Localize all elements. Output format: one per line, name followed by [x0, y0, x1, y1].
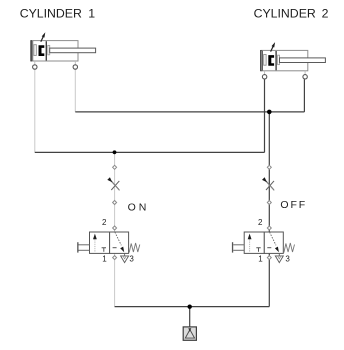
- wire: cylinder C2 port B down to upper manifold: [303, 79, 305, 112]
- svg-text:2: 2: [258, 218, 263, 227]
- cylinder C1 body: [31, 41, 78, 61]
- valve V1 right box: [110, 232, 129, 253]
- cylinder C1 port B: [73, 61, 77, 69]
- cylinder C2 body: [261, 50, 308, 70]
- valve V1 blocked port right box: [113, 247, 117, 249]
- throttle FC1 lower port: [113, 201, 117, 205]
- cylinder C2 position arrow: [271, 42, 276, 52]
- valve V2 left box: [244, 232, 264, 253]
- svg-text:ON: ON: [128, 201, 150, 213]
- valve V1 return spring: [129, 243, 140, 253]
- pressure source PS1: [183, 327, 196, 340]
- valve V1 pushbutton actuator: [77, 242, 89, 252]
- wire: supply drop to source: [189, 307, 191, 330]
- cylinder C2 port A: [262, 71, 266, 79]
- wire: bottom supply line: [115, 306, 270, 308]
- cylinder C1 port A: [33, 61, 37, 69]
- svg-text:1: 1: [88, 6, 95, 20]
- valve V2 flow arrow left box: [248, 234, 252, 252]
- cylinder C2: [260, 42, 325, 79]
- svg-text:1: 1: [258, 255, 263, 264]
- throttle FC1 restrictor X: [111, 181, 119, 190]
- valve V2 port 3 exhaust: [275, 253, 283, 262]
- valve V1 left box: [90, 232, 110, 253]
- valve V2 blocked port right box: [267, 247, 271, 249]
- wire: cylinder C1 port A down to lower manifold: [34, 69, 36, 152]
- throttle FC1 adjustment arrow: [107, 177, 119, 190]
- svg-text:OFF: OFF: [280, 199, 307, 211]
- throttle FC2 adjustment arrow: [262, 177, 274, 190]
- valve V2 exhaust path right box: [270, 232, 279, 252]
- valve V2 (OFF pushbutton 3/2): [232, 218, 295, 263]
- throttle valve FC1 (ON branch): [107, 165, 119, 204]
- valve V2 return spring: [284, 243, 295, 253]
- cylinder C1 piston plate: [45, 41, 47, 60]
- cylinder C2 piston rod: [280, 58, 326, 63]
- cylinder C1 left end cap: [30, 40, 31, 61]
- svg-text:2: 2: [102, 218, 107, 227]
- cylinder C1 piston rod: [50, 48, 96, 53]
- wire: valve V2 port 1 down to supply line: [268, 254, 270, 307]
- valve V2 port 1: [267, 256, 271, 260]
- svg-text:CYLINDER: CYLINDER: [254, 6, 316, 20]
- svg-text:3: 3: [285, 255, 290, 264]
- svg-text:2: 2: [322, 6, 329, 20]
- cylinder C1 cushion sleeve: [34, 45, 36, 56]
- valve V2 pushbutton actuator: [232, 242, 244, 252]
- wire: OFF branch vertical (junction to valve V2 port 2): [268, 112, 270, 232]
- cylinder C2 cushion sleeve: [264, 55, 266, 66]
- valve V1 exhaust path right box: [115, 232, 124, 252]
- valve V1 (ON pushbutton 3/2): [77, 218, 140, 263]
- throttle FC2 restrictor X: [266, 181, 274, 190]
- valve V2 right box: [264, 232, 283, 253]
- cylinder C1 rear wall: [32, 41, 34, 61]
- cylinder C2 port B: [303, 71, 307, 79]
- cylinder C2 rod bearing: [278, 55, 280, 64]
- node: junction upper manifold / OFF branch: [267, 110, 272, 115]
- cylinder C2 piston magnet: [268, 55, 274, 66]
- wire: upper manifold horizontal (rod-side line): [75, 111, 304, 113]
- wire: cylinder C1 port B down to upper manifold: [74, 69, 76, 112]
- cylinder C1 rod bearing: [48, 45, 50, 54]
- valve V1 port 3 exhaust: [121, 253, 129, 262]
- throttle FC2 lower port: [267, 201, 271, 205]
- cylinder C2 left end cap: [260, 50, 261, 71]
- throttle FC2 upper port: [267, 165, 271, 169]
- valve V2 port 2: [267, 226, 271, 230]
- cylinder C2 piston plate: [275, 51, 277, 70]
- node: junction lower manifold / ON branch: [113, 150, 117, 154]
- svg-text:1: 1: [102, 255, 107, 264]
- wire: ON branch vertical (junction to valve V1 port 2): [114, 152, 116, 232]
- throttle valve FC2 (OFF branch): [262, 165, 274, 204]
- svg-text:3: 3: [129, 255, 134, 264]
- cylinder C2 rear wall: [262, 51, 264, 71]
- cylinder C1: [30, 32, 95, 69]
- wire: valve V1 port 1 down to supply line: [114, 254, 116, 307]
- wire: lower manifold horizontal (cap-side line): [35, 151, 265, 153]
- node: junction supply line / source: [188, 305, 192, 309]
- svg-text:CYLINDER: CYLINDER: [20, 6, 82, 20]
- cylinder C1 position arrow: [41, 32, 46, 42]
- throttle FC1 upper port: [113, 165, 117, 169]
- wire: cylinder C2 port A down to lower manifold: [264, 79, 266, 152]
- valve V1 port 2: [113, 226, 117, 230]
- valve V1 port 1: [113, 256, 117, 260]
- valve V1 blocked port left box: [102, 248, 106, 252]
- valve V1 flow arrow left box: [93, 234, 97, 252]
- valve V2 blocked port left box: [256, 248, 260, 252]
- cylinder C1 piston magnet: [39, 45, 45, 56]
